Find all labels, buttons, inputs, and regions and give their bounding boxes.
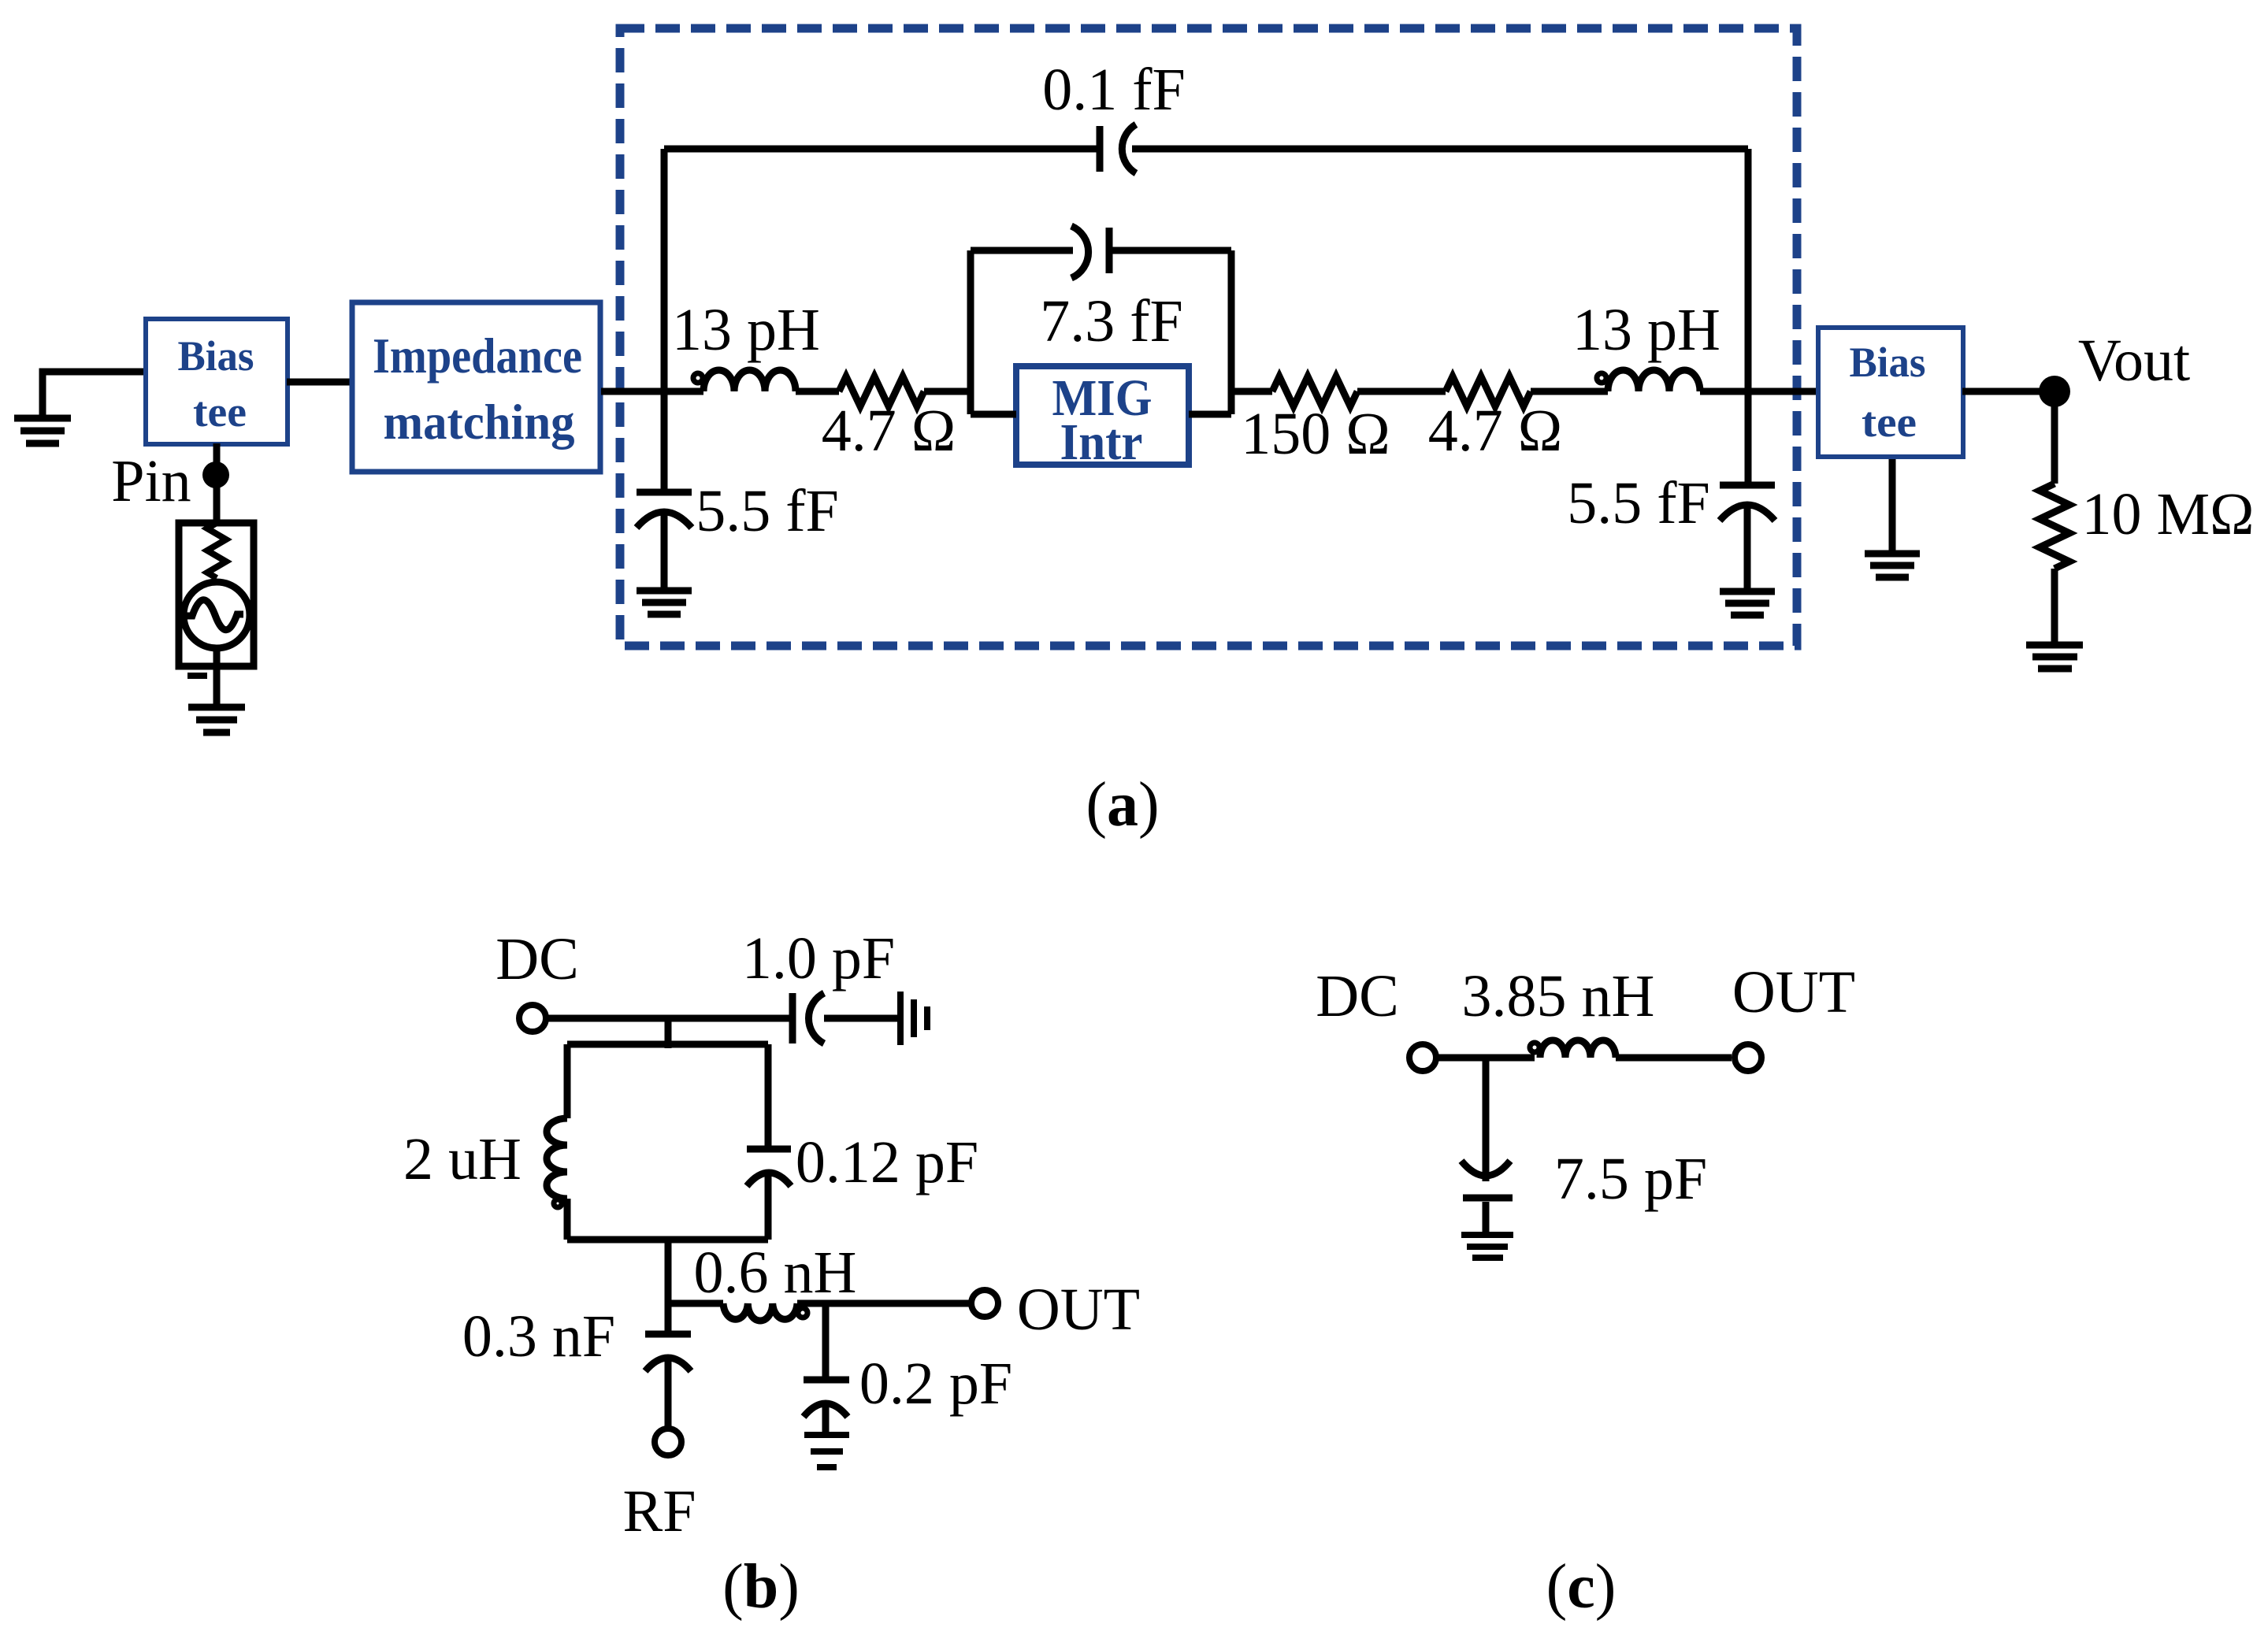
capacitor 7.5 pF — [1461, 1161, 1510, 1176]
wire between resistors — [1357, 388, 1446, 395]
svg-text:tee: tee — [1862, 398, 1917, 446]
capacitor 7.3 fF — [1071, 226, 1089, 278]
svg-text:0.12 pF: 0.12 pF — [796, 1129, 978, 1195]
loop top wire — [567, 1041, 768, 1048]
svg-text:3.85 nH: 3.85 nH — [1462, 963, 1655, 1029]
svg-text:Bias: Bias — [1850, 339, 1926, 386]
node Pin dot — [202, 461, 229, 488]
wire resistor to inductor — [1531, 388, 1608, 395]
svg-text:0.6 nH: 0.6 nH — [694, 1240, 857, 1306]
ground (source) — [188, 707, 245, 732]
wire resistor to parallel branch — [924, 388, 971, 395]
svg-text:5.5 fF: 5.5 fF — [696, 478, 839, 544]
loop right vertical (lower) — [765, 1172, 772, 1240]
svg-text:0.3 nF: 0.3 nF — [462, 1303, 615, 1370]
svg-text:13 pH: 13 pH — [672, 297, 820, 363]
svg-text:13 pH: 13 pH — [1572, 297, 1720, 363]
svg-text:Pin: Pin — [111, 448, 191, 514]
terminal RF — [655, 1429, 681, 1455]
resistor 150 ohm — [1272, 376, 1357, 406]
wire Bias tee to Vout — [1962, 388, 2055, 395]
wire input ground to Bias tee — [43, 372, 143, 417]
parallel top wire (left) — [971, 247, 1073, 254]
inductor 2 uH — [547, 1118, 567, 1199]
svg-text:2 uH: 2 uH — [403, 1126, 522, 1192]
svg-text:Bias: Bias — [178, 332, 254, 380]
svg-text:0.2 pF: 0.2 pF — [859, 1351, 1012, 1417]
terminal DC (c) — [1409, 1044, 1436, 1071]
stub left to MIG box — [971, 411, 1016, 418]
svg-text:(a): (a) — [1086, 770, 1159, 840]
svg-text:DC: DC — [1316, 963, 1399, 1029]
wire to 150 ohm — [1231, 388, 1272, 395]
stub cap to ground — [1483, 1202, 1490, 1233]
ground (input) — [14, 418, 71, 443]
Bias tee box (left) — [146, 319, 288, 444]
wire node B to inductor 0.6 nH — [668, 1300, 723, 1307]
source box — [179, 523, 254, 666]
dashed intrinsic-region box — [620, 28, 1797, 646]
MIG Intr box — [1016, 366, 1189, 465]
svg-text:OUT: OUT — [1017, 1277, 1140, 1343]
stub loop to node B — [665, 1240, 672, 1303]
top feedback wire (left half) — [664, 146, 1097, 153]
side ground (b) — [900, 992, 927, 1045]
svg-text:OUT: OUT — [1732, 959, 1855, 1025]
source minus mark — [187, 673, 207, 679]
loop left vertical (lower) — [564, 1199, 571, 1240]
node A vertical branch (left) — [661, 149, 668, 492]
wire inductor to OUT (b) — [797, 1300, 969, 1307]
parallel top wire (right) — [1109, 247, 1231, 254]
sub-figure labels — [722, 770, 1616, 1622]
wire Bias tee to Impedance matching — [287, 379, 351, 386]
Impedance matching box — [352, 302, 600, 472]
capacitor 0.3 nF — [665, 1303, 672, 1331]
resistor 10 Mohm — [2040, 484, 2069, 569]
stub Bias tee (left) to Pin — [213, 443, 221, 523]
wire cap to side ground — [824, 1015, 898, 1022]
svg-text:7.3 fF: 7.3 fF — [1040, 288, 1183, 354]
ground (right shunt) — [1720, 591, 1775, 615]
svg-text:4.7 Ω: 4.7 Ω — [822, 398, 956, 464]
svg-text:1.0 pF: 1.0 pF — [742, 925, 895, 992]
capacitor 0.2 pF branch — [822, 1303, 830, 1377]
ground (left shunt) — [637, 591, 692, 614]
svg-text:DC: DC — [496, 926, 579, 992]
terminal DC (b) — [519, 1005, 546, 1032]
wire to resistor — [796, 388, 839, 395]
wire Vout to resistor — [2051, 391, 2058, 484]
parallel branch right vertical — [1228, 250, 1235, 414]
svg-text:0.1 fF: 0.1 fF — [1042, 57, 1186, 123]
ground (0.2 pF) — [804, 1435, 849, 1467]
svg-text:RF: RF — [623, 1478, 696, 1544]
svg-text:10 MΩ: 10 MΩ — [2081, 481, 2254, 547]
svg-text:tee: tee — [193, 388, 247, 436]
stub MIG box to right vertical — [1189, 411, 1231, 418]
source resistor — [207, 523, 226, 578]
AC source circle — [184, 582, 250, 648]
ground (7.5 pF) — [1461, 1235, 1513, 1258]
ground (Vout) — [2026, 645, 2083, 669]
terminal OUT (b) — [971, 1290, 998, 1317]
inductor 0.6 nH — [723, 1303, 797, 1321]
wire inductor to Bias tee (right) — [1700, 388, 1816, 395]
vertical branch (right) — [1745, 149, 1752, 485]
wire Impedance matching to node A — [601, 388, 703, 395]
loop left vertical (upper) — [564, 1044, 571, 1118]
svg-text:Impedance: Impedance — [373, 328, 582, 384]
resistor 4.7 ohm (right) — [1446, 376, 1531, 406]
capacitor 5.5 fF (right shunt) — [1720, 482, 1775, 489]
node Vout dot — [2039, 376, 2070, 407]
top feedback wire (right half) — [1132, 146, 1748, 153]
AC sine — [187, 600, 243, 630]
capacitor 0.1 fF — [1097, 126, 1104, 172]
svg-text:Intr: Intr — [1060, 413, 1143, 471]
terminal OUT (c) — [1735, 1044, 1761, 1071]
capacitor 0.12 pF — [747, 1146, 791, 1153]
inductor 3.85 nH — [1530, 1043, 1539, 1052]
loop right vertical (upper) — [765, 1044, 772, 1149]
svg-text:(b): (b) — [722, 1552, 800, 1622]
inductor 13 pH (right) — [1597, 373, 1606, 383]
wire source to ground — [213, 648, 221, 706]
stub Bias tee (right) to ground — [1889, 459, 1896, 551]
svg-text:150 Ω: 150 Ω — [1241, 401, 1390, 467]
stub down to cap 7.5 pF — [1483, 1058, 1490, 1181]
capacitor 5.5 fF (left shunt) — [637, 489, 692, 496]
svg-text:Vout: Vout — [2078, 328, 2190, 394]
svg-text:5.5 fF: 5.5 fF — [1567, 470, 1710, 536]
svg-text:matching: matching — [384, 394, 575, 450]
wire inductor to OUT (c) — [1616, 1055, 1732, 1062]
svg-text:7.5 pF: 7.5 pF — [1554, 1146, 1707, 1212]
stub down to loop — [665, 1018, 672, 1048]
wire DC to inductor — [1436, 1055, 1535, 1062]
ground (right bias tee) — [1865, 554, 1920, 577]
loop bottom wire — [567, 1236, 768, 1244]
svg-text:(c): (c) — [1546, 1552, 1617, 1622]
resistor 4.7 ohm (left) — [839, 376, 924, 406]
inductor 13 pH (left) — [693, 373, 703, 383]
wire DC to cap 1.0 pF — [546, 1015, 789, 1022]
parallel branch left vertical — [967, 250, 974, 414]
wire resistor to ground — [2051, 569, 2058, 643]
Bias tee box (right) — [1818, 328, 1963, 457]
capacitor 1.0 pF — [789, 993, 796, 1043]
svg-text:4.7 Ω: 4.7 Ω — [1428, 398, 1562, 464]
